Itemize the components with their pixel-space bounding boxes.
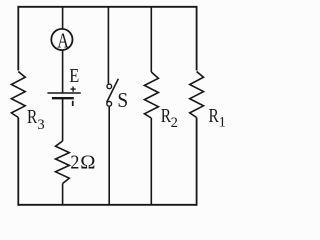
svg-text:2: 2	[70, 152, 79, 174]
wire top border	[18, 6, 196, 8]
wire branch2 bottom	[62, 184, 64, 205]
wire branch2 top	[62, 7, 64, 29]
wire branch3 bottom	[108, 107, 110, 205]
switch S bottom contact	[107, 101, 112, 106]
wire branch4 bottom	[150, 118, 152, 205]
wire left border top segment	[17, 6, 19, 71]
label minus tick	[72, 101, 74, 106]
switch S blade	[107, 79, 119, 103]
resistor 2ohm	[56, 141, 70, 184]
resistor R3	[11, 72, 25, 118]
wire bottom border	[18, 204, 196, 206]
battery E positive plate	[47, 92, 80, 94]
resistor R2	[144, 72, 158, 118]
ammeter A	[51, 29, 72, 50]
svg-text:S: S	[117, 88, 128, 112]
wire branch4 top	[150, 7, 152, 72]
wire right border top segment	[196, 6, 198, 71]
switch S top contact	[107, 84, 112, 89]
svg-text:1: 1	[219, 115, 226, 131]
wire right border bottom segment	[196, 118, 198, 206]
resistor R1	[190, 72, 204, 118]
svg-text:R: R	[27, 106, 38, 128]
wire left border bottom segment	[17, 118, 19, 206]
svg-text:Ω: Ω	[80, 152, 95, 174]
wire branch2 battery to resistor	[62, 98, 64, 141]
svg-text:E: E	[69, 65, 79, 87]
wire branch2 ammeter to battery	[62, 51, 64, 93]
label +	[71, 87, 76, 92]
svg-text:2: 2	[171, 115, 178, 131]
svg-text:3: 3	[37, 117, 44, 133]
svg-text:A: A	[57, 28, 69, 52]
wire branch3 top	[107, 7, 109, 84]
battery E negative plate	[52, 97, 74, 99]
